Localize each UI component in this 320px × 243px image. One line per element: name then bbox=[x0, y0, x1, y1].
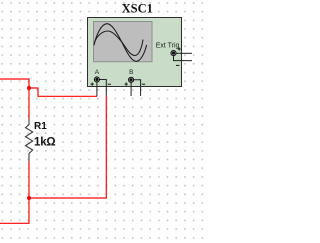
svg-text:A: A bbox=[95, 69, 100, 76]
svg-text:XSC1: XSC1 bbox=[122, 1, 153, 15]
svg-text:1kΩ: 1kΩ bbox=[34, 137, 55, 149]
svg-text:Ext Trig: Ext Trig bbox=[156, 42, 180, 49]
svg-text:R1: R1 bbox=[34, 121, 47, 132]
svg-text:B: B bbox=[129, 69, 133, 76]
